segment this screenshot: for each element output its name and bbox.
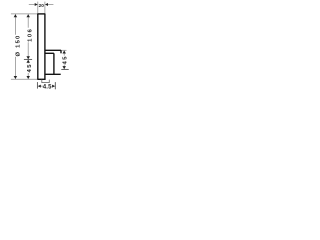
svg-text:106: 106: [28, 28, 34, 42]
dark object outline: thermostat side view: [37, 14, 61, 79]
plate top edge: [37, 13, 45, 15]
dim 4.5 right ext bar: [54, 82, 56, 89]
dim 45 right bottom tick: [61, 68, 68, 70]
wire arm-top extension to right: [61, 49, 67, 51]
arrow 106 down: [26, 56, 30, 59]
arrow 4.5 left-pointing: [38, 85, 41, 88]
dim 20 line left: [29, 4, 35, 6]
dim 106 bottom tick: [24, 58, 32, 60]
handle grip bottom edge: [45, 73, 61, 75]
dim 150 line upper: [14, 14, 16, 35]
svg-text:45: 45: [27, 63, 33, 72]
arrow 4.5 right-pointing: [52, 85, 55, 88]
arrow 45 left up: [26, 60, 30, 63]
medium bars of dim 4.5: [24, 59, 69, 89]
wire top extension line: [11, 13, 37, 15]
dim 4.5 left ext bar: [36, 82, 38, 89]
arrow 20 left-pointing: [45, 3, 48, 6]
arrow 45 left down: [26, 76, 30, 79]
arrow 106 up: [26, 14, 30, 17]
dim 106 line upper: [27, 14, 29, 27]
dim 4.5 line left: [41, 85, 43, 87]
plate back face: [44, 14, 46, 79]
dim 20 ext line left: [37, 2, 39, 14]
foot right edge: [48, 80, 50, 83]
handle arm top edge: [45, 49, 61, 51]
svg-text:4.5: 4.5: [43, 84, 52, 91]
svg-text:45: 45: [63, 55, 69, 64]
foot left edge: [41, 80, 43, 83]
svg-text:Ø 150: Ø 150: [15, 34, 21, 56]
handle grip vertical: [53, 53, 55, 74]
wire bottom extension line: [11, 78, 37, 80]
svg-text:20: 20: [39, 3, 45, 8]
arrow 150 down: [14, 76, 18, 79]
plate front face: [37, 14, 39, 79]
handle arm end cap: [60, 50, 62, 53]
arrowheads: [14, 3, 66, 88]
dim 45 left line lower: [27, 73, 29, 79]
dim 45 right line lower: [63, 65, 65, 69]
arrow 45 right down: [62, 66, 65, 69]
plate bottom edge: [37, 78, 45, 80]
arrow 20 right-pointing: [35, 3, 38, 6]
handle arm bottom edge: [45, 52, 54, 54]
arrow 150 up: [14, 14, 18, 17]
labels: [15, 3, 68, 91]
arrow 45 right up: [62, 51, 65, 54]
dim 20 line right: [48, 4, 54, 6]
dim 45 left line upper: [27, 60, 29, 64]
dim 150 line lower: [14, 57, 16, 79]
dim 45 right line upper: [63, 51, 65, 56]
dim 20 ext line right: [44, 2, 46, 14]
dim 106 line lower: [27, 42, 29, 59]
foot bottom edge: [42, 82, 50, 84]
light dimension / extension lines: [11, 2, 67, 87]
